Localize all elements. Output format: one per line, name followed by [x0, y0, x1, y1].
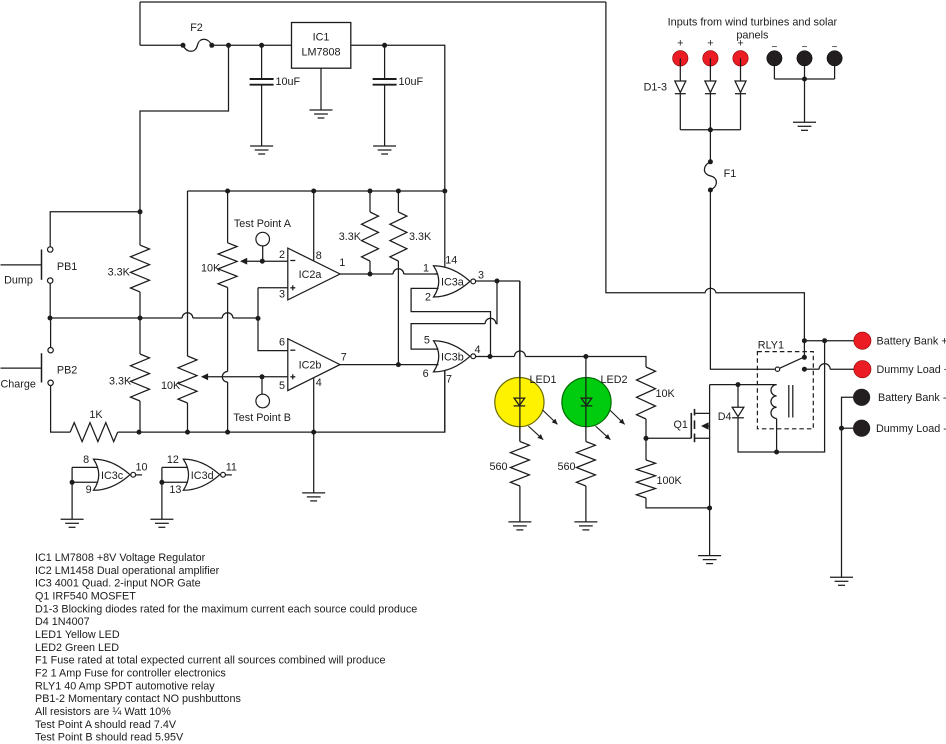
svg-text:10K: 10K — [656, 388, 676, 400]
svg-text:1: 1 — [339, 257, 345, 269]
svg-text:LED1: LED1 — [530, 374, 557, 386]
svg-text:6: 6 — [279, 337, 285, 349]
svg-text:7: 7 — [341, 351, 347, 363]
svg-text:Inputs from wind turbines and: Inputs from wind turbines and solar — [668, 17, 838, 29]
svg-text:4: 4 — [316, 377, 322, 389]
svg-text:IC1 LM7808 +8V Voltage Regulat: IC1 LM7808 +8V Voltage Regulator — [35, 552, 206, 564]
svg-text:10K: 10K — [161, 380, 181, 392]
svg-text:8: 8 — [83, 454, 89, 466]
svg-text:LED2 Green LED: LED2 Green LED — [35, 642, 119, 654]
svg-text:5: 5 — [279, 380, 285, 392]
svg-text:14: 14 — [445, 255, 457, 267]
svg-text:+: + — [737, 38, 743, 50]
svg-text:7: 7 — [446, 374, 452, 386]
svg-text:IC3c: IC3c — [101, 470, 124, 482]
svg-text:LED1 Yellow LED: LED1 Yellow LED — [35, 629, 120, 641]
svg-text:5: 5 — [424, 335, 430, 347]
svg-text:560: 560 — [557, 461, 575, 473]
svg-text:Test Point B: Test Point B — [233, 412, 291, 424]
svg-text:9: 9 — [86, 484, 92, 496]
svg-text:Test Point A should read 7.4V: Test Point A should read 7.4V — [35, 719, 177, 731]
svg-text:PB2: PB2 — [57, 365, 77, 377]
svg-text:Battery Bank -: Battery Bank - — [878, 392, 946, 404]
svg-text:1K: 1K — [89, 409, 103, 421]
svg-text:F2: F2 — [190, 22, 203, 34]
svg-text:IC1: IC1 — [313, 32, 330, 44]
svg-text:IC3b: IC3b — [441, 352, 464, 364]
svg-text:3: 3 — [279, 289, 285, 301]
svg-text:Test Point A: Test Point A — [234, 218, 292, 230]
svg-text:Charge: Charge — [1, 379, 36, 391]
svg-text:F1 Fuse rated at total expecte: F1 Fuse rated at total expected current … — [35, 655, 385, 667]
svg-text:100K: 100K — [657, 475, 683, 487]
svg-text:Q1 IRF540 MOSFET: Q1 IRF540 MOSFET — [35, 591, 136, 603]
svg-text:IC2a: IC2a — [299, 269, 322, 281]
svg-text:12: 12 — [167, 454, 179, 466]
svg-text:10: 10 — [135, 462, 147, 474]
svg-text:Dummy Load +: Dummy Load + — [877, 364, 946, 376]
svg-text:RLY1 40 Amp SPDT automotive re: RLY1 40 Amp SPDT automotive relay — [35, 680, 215, 692]
svg-text:13: 13 — [169, 484, 181, 496]
svg-text:D1-3: D1-3 — [644, 82, 667, 94]
svg-text:LED2: LED2 — [601, 374, 628, 386]
svg-text:IC3d: IC3d — [191, 470, 214, 482]
svg-text:1: 1 — [423, 263, 429, 275]
svg-text:10K: 10K — [201, 263, 221, 275]
svg-text:Dump: Dump — [4, 275, 33, 287]
svg-text:PB1: PB1 — [57, 261, 77, 273]
svg-text:All resistors are ¼ Watt 10%: All resistors are ¼ Watt 10% — [35, 706, 171, 718]
svg-text:PB1-2 Momentary contact NO pus: PB1-2 Momentary contact NO pushbuttons — [35, 693, 241, 705]
svg-text:IC3 4001 Quad. 2-input NOR Gat: IC3 4001 Quad. 2-input NOR Gate — [35, 578, 201, 590]
svg-text:560: 560 — [489, 461, 507, 473]
svg-text:IC2b: IC2b — [299, 360, 322, 372]
svg-text:D1-3 Blocking diodes rated for: D1-3 Blocking diodes rated for the maxim… — [35, 603, 417, 615]
svg-text:IC3a: IC3a — [441, 277, 464, 289]
svg-text:2: 2 — [425, 292, 431, 304]
svg-text:3.3K: 3.3K — [109, 376, 132, 388]
svg-text:+: + — [677, 38, 683, 50]
svg-text:10uF: 10uF — [276, 76, 301, 88]
svg-text:10uF: 10uF — [399, 76, 424, 88]
svg-text:3.3K: 3.3K — [409, 231, 432, 243]
svg-text:LM7808: LM7808 — [301, 47, 340, 59]
svg-text:IC2 LM1458 Dual operational am: IC2 LM1458 Dual operational amplifier — [35, 565, 220, 577]
svg-text:4: 4 — [474, 344, 480, 356]
svg-text:3: 3 — [478, 270, 484, 282]
svg-text:F2 1 Amp Fuse for controller e: F2 1 Amp Fuse for controller electronics — [35, 668, 226, 680]
svg-text:Dummy Load -: Dummy Load - — [876, 423, 946, 435]
svg-text:2: 2 — [279, 249, 285, 261]
svg-text:3.3K: 3.3K — [108, 266, 131, 278]
svg-text:8: 8 — [316, 250, 322, 262]
svg-text:Q1: Q1 — [674, 419, 688, 431]
svg-text:Battery Bank +: Battery Bank + — [877, 336, 946, 348]
svg-text:D4: D4 — [718, 411, 732, 423]
svg-text:11: 11 — [226, 462, 237, 474]
svg-text:6: 6 — [423, 368, 429, 380]
svg-text:3.3K: 3.3K — [339, 231, 362, 243]
svg-text:+: + — [707, 38, 713, 50]
svg-text:D4 1N4007: D4 1N4007 — [35, 616, 90, 628]
svg-text:F1: F1 — [724, 168, 737, 180]
svg-text:Test Point B should read 5.95V: Test Point B should read 5.95V — [35, 732, 184, 744]
svg-text:RLY1: RLY1 — [758, 340, 784, 352]
